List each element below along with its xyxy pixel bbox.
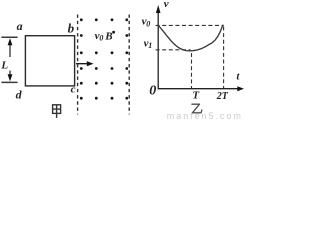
svg-text:d: d bbox=[16, 88, 23, 102]
svg-text:2T: 2T bbox=[216, 91, 229, 102]
svg-text:t: t bbox=[236, 71, 240, 83]
svg-text:0: 0 bbox=[146, 19, 150, 28]
svg-text:L: L bbox=[0, 60, 8, 72]
svg-text:1: 1 bbox=[148, 41, 152, 50]
svg-text:c: c bbox=[71, 84, 76, 96]
svg-text:v: v bbox=[164, 0, 169, 10]
svg-text:0: 0 bbox=[99, 34, 103, 43]
svg-text:0: 0 bbox=[149, 83, 156, 98]
svg-text:b: b bbox=[68, 21, 75, 36]
svg-text:B: B bbox=[104, 30, 112, 42]
svg-text:T: T bbox=[192, 89, 200, 101]
svg-text:a: a bbox=[17, 19, 23, 33]
svg-text:manfen5.com: manfen5.com bbox=[167, 111, 243, 120]
